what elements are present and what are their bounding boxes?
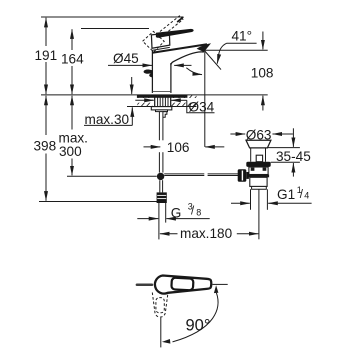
dimension max.300 upper arrow [71,96,73,130]
svg-text:164: 164 [61,52,84,67]
handle rotated position dashed [152,293,168,318]
svg-text:G1: G1 [277,187,295,202]
svg-text:G: G [171,206,182,221]
handle rotated button dashed [156,298,164,313]
dimension 106 right arrow [205,146,224,148]
pop-up rod middle segment [158,152,160,172]
90 degree arc [173,293,219,342]
handle top view outline [155,276,211,294]
svg-text:398: 398 [34,139,57,154]
svg-text:max.180: max.180 [180,226,233,241]
handle top view stub [137,283,152,286]
white gap in hatch for arrows [133,98,152,103]
svg-text:300: 300 [59,144,82,159]
drain plug top [246,140,271,148]
svg-text:41°: 41° [232,28,253,43]
drain plug neck [250,148,252,162]
hose nut G3/8 [157,192,167,203]
svg-text:Ø45: Ø45 [113,51,139,66]
dimension 191 lower arrow [45,62,47,94]
dimension max.30 upper arrow [131,77,133,94]
41 degree leader arc [217,43,226,63]
drain tailpipe centerline [258,189,260,239]
handle pivot vertical line [160,318,162,348]
faucet shank thread lines [154,95,156,107]
svg-text:4: 4 [304,191,309,201]
svg-text:90°: 90° [186,316,211,334]
spray angle small arc [186,68,202,75]
faucet body left edge [151,51,153,93]
countertop surface line [41,94,268,96]
faucet spout top edge [152,44,207,53]
svg-text:8: 8 [196,208,201,218]
reference line (164 level) [81,28,149,30]
dimension Ø63 left arrow [230,133,245,135]
lever open tip solid [177,17,183,22]
41 degree leader underline [227,42,257,44]
faucet body right edge [170,63,172,93]
dimension max.180 right arrow [237,233,259,235]
max.300 bottom reference line [67,175,157,177]
drain plug tab [256,155,262,162]
faucet base top seam [152,91,171,93]
horizontal pop-up linkage rod [164,173,204,175]
dimension max.30 lower arrow [131,107,133,125]
svg-text:max.30: max.30 [85,112,130,127]
35-45 lower arrow [292,163,294,177]
dimension max.300 lower arrow [71,159,73,176]
countertop hatching left [124,94,163,108]
drain seal flange [246,162,270,167]
pop-up rod upper segment [158,112,160,141]
Ø34 leader box [187,100,215,113]
dimension Ø34 left arrow [135,99,154,101]
dimension 398 upper arrow [45,96,47,135]
dimension Ø45 left arrow [108,64,152,66]
pivot junction dot [157,173,164,180]
svg-text:/: / [191,206,195,218]
max.30 leader underline [84,124,132,126]
countertop hatching right [165,94,204,108]
svg-text:/: / [300,189,304,201]
countertop underside line [127,106,197,108]
dimension 164 lower arrow [71,66,73,94]
dimension 108 lower arrow [262,96,264,111]
pop-up rod lower segment [159,180,161,192]
spout tip vertical extension line [204,51,206,147]
dimension 164 upper arrow [71,29,73,50]
dimension G1 1/4 left arrow [231,202,250,204]
dimension 106 left arrow [144,146,161,148]
dimension 398 lower arrow [45,154,47,201]
drain body lower [250,177,267,186]
svg-text:108: 108 [251,66,274,81]
faucet base plate [137,95,188,98]
398 bottom reference line [39,201,157,203]
lever hub outline [151,33,169,48]
dimension G3/8 right arrow with leader [166,218,209,220]
faucet spout tip wedge [197,43,211,52]
spray direction line [205,51,221,70]
dimension G1 1/4 right arrow with leader [268,202,311,204]
dimension Ø63 right arrow [273,133,293,135]
35-45 lower extension line [271,161,300,163]
drain body upper [249,167,268,175]
drain tailpipe walls [250,189,252,210]
top reference line (191 level) [41,16,184,18]
supply hose lines [158,203,160,239]
90 degree arc top arrowhead [214,285,219,293]
drain locknut band [248,175,269,178]
shank locknut [151,107,172,110]
dimension Ø45 right arrow [174,64,191,66]
spout outlet reference line [205,49,268,51]
lever arm solid [156,29,194,38]
lever hub lower line [152,47,170,50]
drain body notches [251,168,255,171]
drain ball-rod nut [238,169,247,181]
lever open position dashed [156,16,183,38]
pop-up rod linkage step [163,112,167,118]
handle reference line [213,283,228,285]
svg-text:191: 191 [35,48,58,63]
dimension G3/8 left arrow [137,218,158,220]
svg-text:Ø34: Ø34 [189,100,215,115]
faucet spout underside [171,52,204,65]
faucet pop-up knob on body [144,69,153,77]
ball-rod nut connection [246,172,249,179]
dimension 108 upper arrow [262,32,264,50]
35-45 upper arrow [292,128,294,147]
dimension Ø34 leader arrow [171,99,187,101]
dimension 191 upper arrow [45,18,47,46]
shank washer [156,110,168,112]
dimension max.180 left arrow [160,233,178,235]
handle button recess [171,278,193,291]
svg-text:35-45: 35-45 [276,149,311,164]
35-45 upper extension line [268,147,300,149]
svg-text:106: 106 [167,140,190,155]
lever hub open position dashed [143,31,165,52]
90 degree arc bottom arrowhead [162,339,171,344]
drain step [252,186,267,189]
